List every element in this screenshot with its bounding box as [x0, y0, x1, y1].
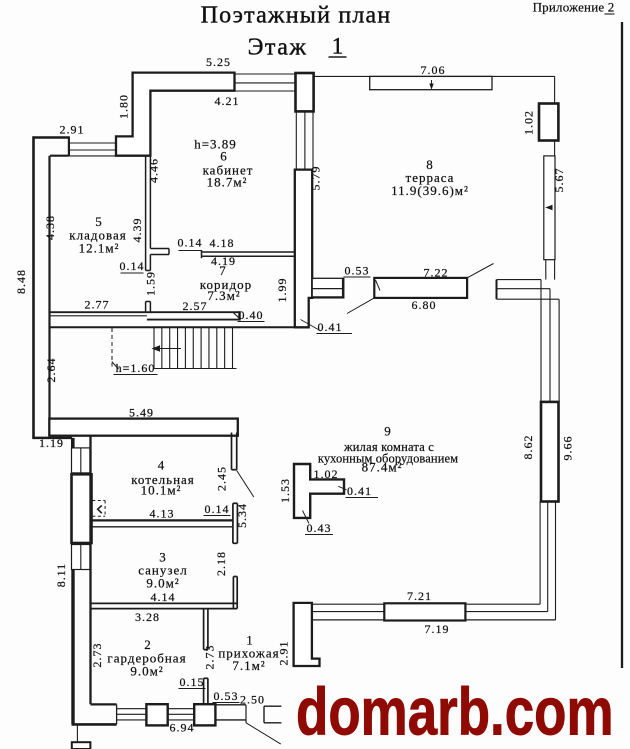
svg-text:8.48: 8.48 — [14, 269, 28, 294]
svg-text:5.25: 5.25 — [206, 55, 231, 69]
svg-text:1.02: 1.02 — [522, 110, 536, 135]
svg-text:8.11: 8.11 — [54, 563, 68, 588]
svg-text:4.13: 4.13 — [150, 507, 175, 521]
svg-text:2.18: 2.18 — [214, 551, 228, 576]
svg-text:6.80: 6.80 — [412, 298, 437, 312]
svg-text:2.73: 2.73 — [203, 645, 217, 670]
svg-text:10.1м²: 10.1м² — [141, 483, 182, 498]
svg-text:9: 9 — [384, 424, 392, 439]
svg-text:1.19: 1.19 — [39, 436, 64, 450]
svg-text:5.49: 5.49 — [129, 406, 154, 420]
svg-text:6: 6 — [220, 149, 228, 164]
svg-text:Приложение 2: Приложение 2 — [533, 0, 615, 15]
svg-text:7.21: 7.21 — [407, 589, 432, 603]
svg-text:1.80: 1.80 — [117, 94, 131, 119]
svg-text:h=3.89: h=3.89 — [194, 137, 237, 152]
svg-text:9.66: 9.66 — [561, 436, 575, 461]
svg-text:0.14: 0.14 — [120, 259, 145, 273]
svg-text:0.41: 0.41 — [318, 320, 343, 334]
svg-text:1.02: 1.02 — [314, 467, 339, 481]
svg-text:2.50: 2.50 — [240, 693, 265, 707]
svg-text:4: 4 — [158, 458, 166, 473]
svg-text:18.7м²: 18.7м² — [207, 175, 248, 190]
svg-text:7.3м²: 7.3м² — [207, 288, 240, 303]
svg-text:0.53: 0.53 — [214, 689, 239, 703]
svg-text:7.22: 7.22 — [424, 266, 449, 280]
svg-text:4.46: 4.46 — [147, 158, 161, 183]
svg-text:5.79: 5.79 — [309, 166, 323, 191]
svg-text:5.34: 5.34 — [235, 503, 249, 528]
svg-text:9.0м²: 9.0м² — [146, 576, 179, 591]
svg-text:8.62: 8.62 — [521, 435, 535, 460]
svg-text:4.39: 4.39 — [130, 218, 144, 243]
svg-text:12.1м²: 12.1м² — [79, 241, 120, 256]
svg-text:0.40: 0.40 — [239, 308, 264, 322]
svg-text:4.21: 4.21 — [215, 94, 240, 108]
svg-text:11.9(39.6)м²: 11.9(39.6)м² — [391, 183, 469, 198]
svg-text:4.18: 4.18 — [210, 236, 235, 250]
svg-text:7.19: 7.19 — [425, 622, 450, 636]
svg-text:0.14: 0.14 — [178, 236, 203, 250]
svg-text:1.53: 1.53 — [278, 478, 292, 503]
svg-text:4.38: 4.38 — [43, 215, 57, 240]
svg-text:1.59: 1.59 — [144, 271, 158, 296]
svg-text:2.64: 2.64 — [44, 358, 58, 383]
svg-text:1.99: 1.99 — [275, 278, 289, 303]
svg-text:Этаж: Этаж — [248, 35, 308, 61]
svg-text:0.14: 0.14 — [205, 502, 230, 516]
svg-text:5.67: 5.67 — [552, 168, 566, 193]
svg-text:3.28: 3.28 — [135, 610, 160, 624]
svg-text:2.57: 2.57 — [183, 299, 208, 313]
svg-text:2.77: 2.77 — [85, 298, 110, 312]
svg-text:9.0м²: 9.0м² — [130, 664, 163, 679]
svg-text:6.94: 6.94 — [170, 721, 195, 735]
svg-text:1: 1 — [332, 34, 344, 59]
svg-text:0.41: 0.41 — [347, 484, 372, 498]
svg-text:87.4м²: 87.4м² — [362, 460, 403, 475]
svg-text:Поэтажный план: Поэтажный план — [201, 3, 392, 29]
svg-text:h=1.60: h=1.60 — [116, 361, 156, 375]
svg-text:7.06: 7.06 — [421, 63, 446, 77]
svg-text:0.15: 0.15 — [180, 675, 205, 689]
svg-text:2.91: 2.91 — [60, 123, 85, 137]
svg-text:0.53: 0.53 — [345, 264, 370, 278]
svg-text:0.43: 0.43 — [307, 521, 332, 535]
svg-text:4.14: 4.14 — [151, 590, 176, 604]
svg-text:7.1м²: 7.1м² — [232, 658, 265, 673]
svg-text:2.73: 2.73 — [90, 643, 104, 668]
svg-text:7: 7 — [219, 263, 227, 278]
svg-text:domarb.com: domarb.com — [296, 673, 614, 748]
svg-text:2.45: 2.45 — [215, 466, 229, 491]
